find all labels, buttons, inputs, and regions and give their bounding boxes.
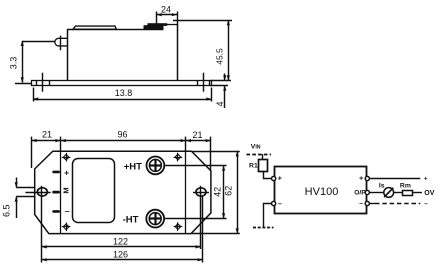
module HV100 box <box>275 167 367 214</box>
node O/P output <box>365 190 369 194</box>
svg-text:6.5: 6.5 <box>1 204 11 217</box>
wire R1 to + input node <box>264 172 273 179</box>
flange left mounting hole centerline <box>42 73 44 92</box>
-HT terminal screw <box>146 210 164 228</box>
screw slot line <box>60 36 62 51</box>
wire VIN to R1 <box>262 154 264 160</box>
svg-text:–: – <box>424 201 428 208</box>
wire meter to Rm <box>394 192 403 194</box>
dimension 126 <box>42 259 203 261</box>
corner screw mark top-right <box>174 153 183 162</box>
svg-text:R1: R1 <box>249 162 258 169</box>
dimension 13.8 <box>33 88 212 102</box>
svg-text:+: + <box>359 176 363 183</box>
ground dashed line <box>253 227 274 229</box>
dimension 42 <box>164 165 227 218</box>
svg-text:-HT: -HT <box>123 214 139 225</box>
node - output <box>365 201 369 205</box>
pin M <box>52 191 60 194</box>
label window rounded rect <box>73 159 115 223</box>
dimension 3.3 <box>15 41 55 84</box>
right terminal ledge line <box>166 24 178 26</box>
corner screw mark top-left <box>62 153 71 162</box>
dimension 62 <box>191 151 240 233</box>
pin - <box>52 210 60 213</box>
svg-text:OV: OV <box>424 190 434 197</box>
corner screw mark bottom-left <box>62 223 71 232</box>
flange left hole edge <box>36 81 38 86</box>
svg-text:45.5: 45.5 <box>215 48 225 65</box>
node - input <box>272 201 276 205</box>
wire + output <box>369 178 420 180</box>
svg-text:21: 21 <box>192 130 202 140</box>
resistor R1 <box>259 160 268 172</box>
svg-text:+: + <box>64 168 69 178</box>
left terminal block on top <box>73 26 116 29</box>
svg-text:96: 96 <box>117 130 127 140</box>
side screw protrusion <box>55 38 68 46</box>
baseplate flange <box>32 81 212 86</box>
right mounting hole <box>196 188 206 196</box>
svg-text:HV100: HV100 <box>305 186 339 198</box>
dimension 122 <box>42 246 201 248</box>
left mounting hole <box>37 188 47 196</box>
left hole horizontal centerline <box>25 192 50 194</box>
left step line <box>60 151 62 233</box>
top dimension 21 / 96 / 21 <box>32 137 211 171</box>
svg-text:+: + <box>278 176 282 183</box>
dimension 4 <box>210 74 228 109</box>
right terminal block upper bar <box>147 23 167 26</box>
svg-text:3.3: 3.3 <box>9 57 19 70</box>
right step line <box>185 151 187 233</box>
right hole horizontal centerline <box>193 192 209 194</box>
corner screw mark bottom-right <box>174 222 183 231</box>
dimension 45.5 <box>173 20 232 81</box>
node + output <box>365 176 369 180</box>
dimension 6.5 <box>16 178 35 219</box>
svg-text:126: 126 <box>113 250 128 260</box>
right hole vertical centerline / extension <box>200 186 202 249</box>
svg-text:+: + <box>424 176 428 182</box>
node + input <box>272 176 276 180</box>
flange right hole edge <box>209 81 211 86</box>
svg-text:21: 21 <box>42 130 52 140</box>
svg-text:62: 62 <box>224 186 234 196</box>
svg-text:42: 42 <box>212 187 222 197</box>
svg-text:+HT: +HT <box>124 161 142 172</box>
meter Is <box>384 188 394 198</box>
svg-text:VIN: VIN <box>251 144 261 151</box>
+HT terminal screw <box>147 157 165 175</box>
wire - input node to ground <box>264 204 273 228</box>
module body (side view) <box>68 25 178 81</box>
svg-text:M: M <box>61 187 70 193</box>
flange left hole edge <box>49 81 51 86</box>
flange right hole edge <box>197 81 199 86</box>
svg-text:24: 24 <box>161 5 171 15</box>
svg-text:–: – <box>278 201 282 208</box>
svg-text:Rm: Rm <box>400 183 411 190</box>
dimension 24 <box>157 12 178 28</box>
resistor Rm <box>403 191 413 196</box>
right terminal block lower bar <box>144 25 164 29</box>
svg-text:Is: Is <box>379 183 385 190</box>
flange right mounting hole centerline <box>203 73 205 92</box>
pin + <box>52 171 60 174</box>
svg-text:–: – <box>65 206 70 216</box>
module outline octagon <box>35 151 211 233</box>
svg-text:122: 122 <box>113 237 128 247</box>
svg-text:O/P: O/P <box>354 190 366 197</box>
left hole vertical centerline / extension <box>41 186 43 263</box>
wire Rm to OV <box>413 192 423 194</box>
svg-text:4: 4 <box>215 101 225 106</box>
right hole second extension <box>202 196 204 263</box>
input terminal dashed line <box>247 154 272 156</box>
wire - output dashed <box>369 203 375 205</box>
wire O/P to meter <box>369 192 384 194</box>
svg-text:–: – <box>359 201 363 208</box>
svg-text:13.8: 13.8 <box>115 88 133 98</box>
